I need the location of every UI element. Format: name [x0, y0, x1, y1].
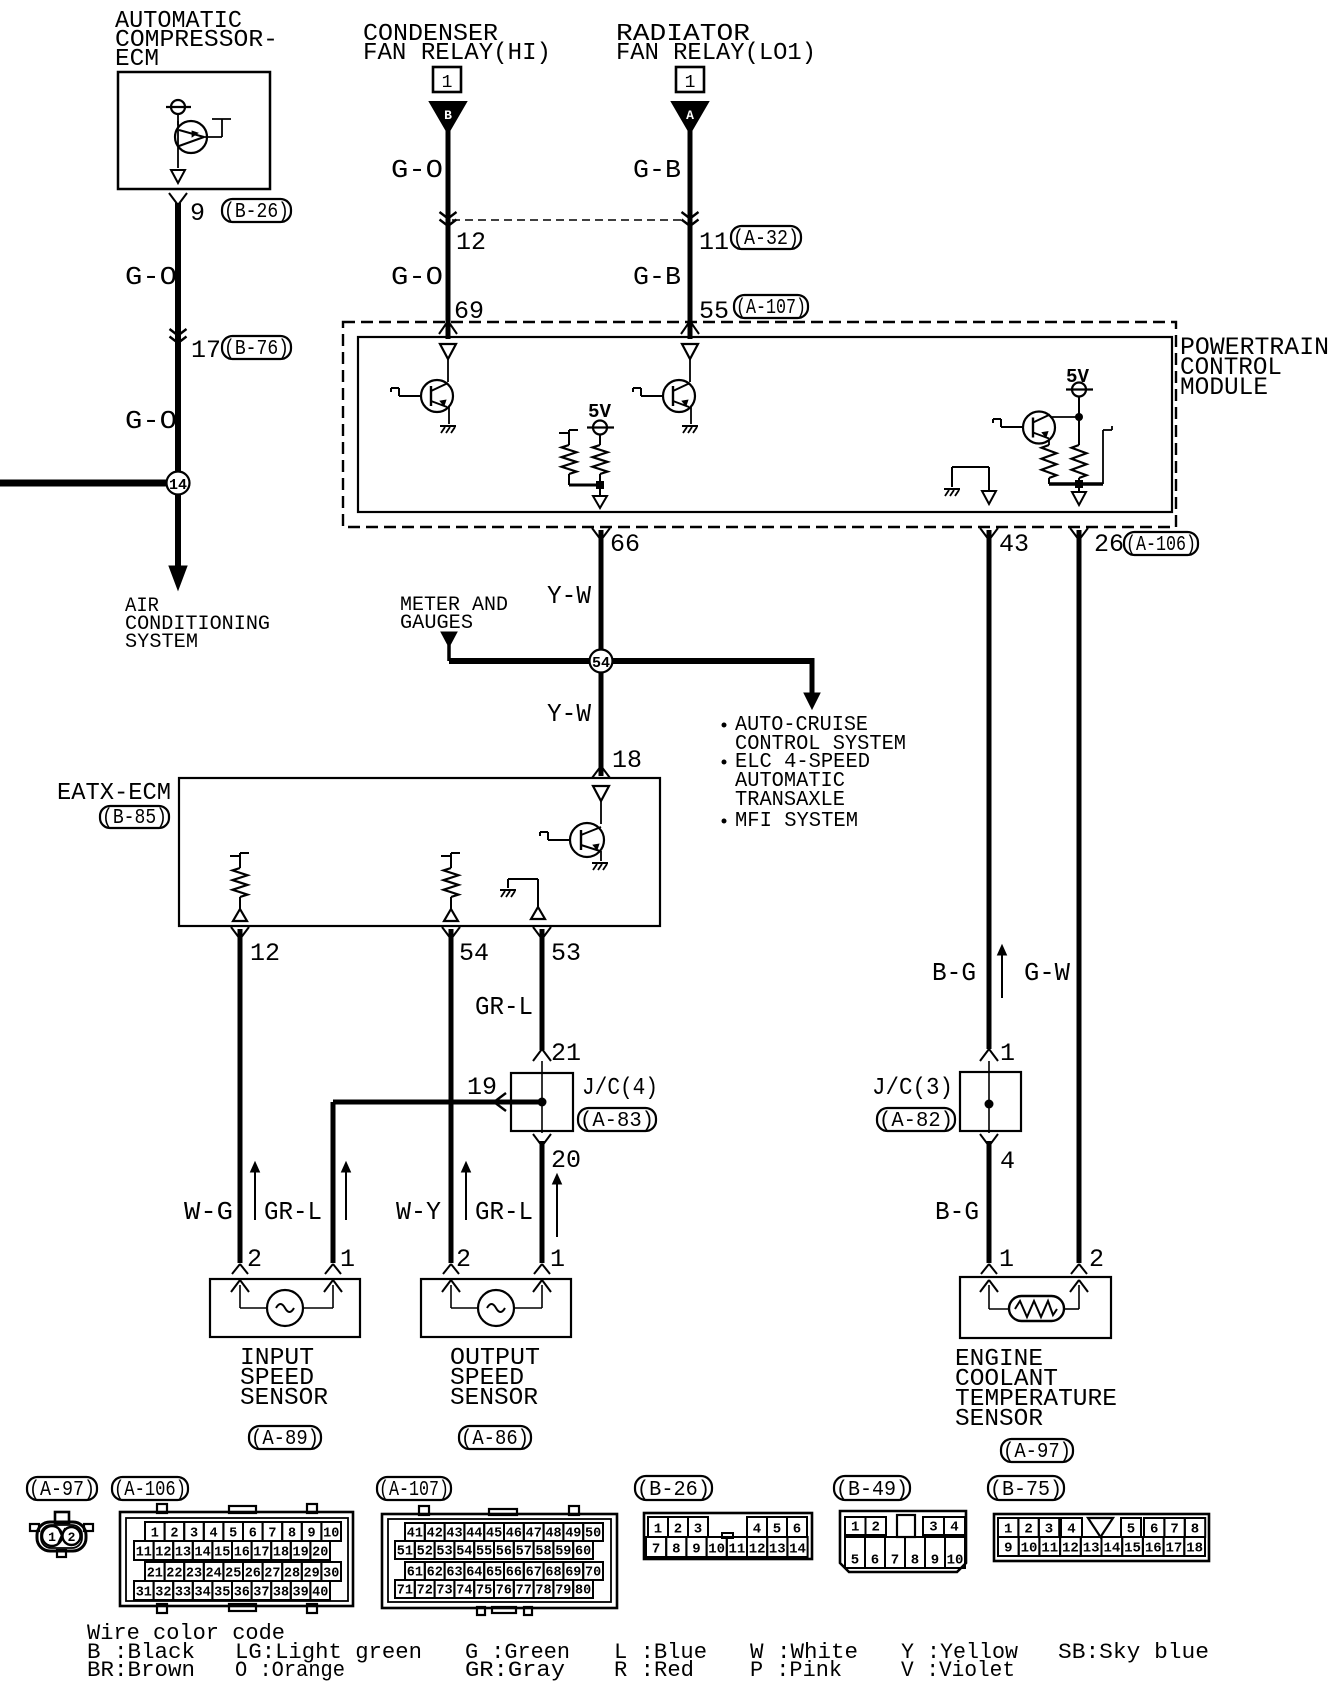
- svg-text:3: 3: [929, 1520, 937, 1536]
- svg-text:8: 8: [672, 1542, 680, 1558]
- svg-text:(B-26): (B-26): [224, 201, 289, 224]
- svg-text:(A-86): (A-86): [461, 1428, 529, 1451]
- svg-text:15: 15: [1124, 1541, 1141, 1557]
- svg-text:1: 1: [1004, 1522, 1012, 1538]
- svg-text:8: 8: [911, 1553, 919, 1569]
- svg-text:2: 2: [1089, 1245, 1104, 1274]
- svg-text:5: 5: [1127, 1522, 1135, 1538]
- svg-text:10: 10: [947, 1553, 964, 1569]
- svg-text:14: 14: [194, 1546, 210, 1561]
- svg-text:65: 65: [486, 1566, 502, 1581]
- svg-text:54: 54: [456, 1545, 472, 1560]
- svg-text:2: 2: [68, 1530, 76, 1545]
- svg-text:8: 8: [1191, 1522, 1199, 1538]
- svg-text:68: 68: [545, 1566, 561, 1581]
- svg-text:(A-97): (A-97): [1003, 1441, 1071, 1464]
- svg-text:G-W: G-W: [1024, 958, 1070, 988]
- svg-text:GR:Gray: GR:Gray: [465, 1658, 565, 1683]
- svg-text:A: A: [686, 108, 694, 123]
- svg-text:G-O: G-O: [125, 262, 177, 292]
- svg-text:42: 42: [427, 1527, 443, 1542]
- svg-text:11: 11: [699, 228, 729, 257]
- svg-text:1: 1: [550, 1245, 565, 1274]
- svg-text:13: 13: [769, 1542, 786, 1558]
- svg-text:7: 7: [268, 1527, 276, 1542]
- svg-text:23: 23: [186, 1567, 202, 1582]
- svg-text:Y-W: Y-W: [547, 699, 591, 729]
- svg-text:12: 12: [250, 939, 280, 968]
- svg-text:7: 7: [891, 1553, 899, 1569]
- svg-text:53: 53: [551, 939, 581, 968]
- svg-text:49: 49: [565, 1527, 581, 1542]
- svg-text:Y-W: Y-W: [547, 581, 591, 611]
- svg-text:43: 43: [446, 1527, 462, 1542]
- svg-text:6: 6: [793, 1522, 801, 1538]
- svg-text:12: 12: [1062, 1541, 1079, 1557]
- svg-text:44: 44: [466, 1527, 482, 1542]
- svg-text:73: 73: [436, 1584, 452, 1599]
- svg-text:37: 37: [253, 1586, 269, 1601]
- svg-text:26: 26: [1094, 530, 1124, 559]
- svg-text:J/C(3): J/C(3): [872, 1075, 953, 1102]
- svg-text:78: 78: [535, 1584, 551, 1599]
- svg-text:10: 10: [1021, 1541, 1038, 1557]
- svg-text:8: 8: [288, 1527, 296, 1542]
- svg-text:58: 58: [535, 1545, 551, 1560]
- svg-text:63: 63: [446, 1566, 462, 1581]
- svg-text:9: 9: [931, 1553, 939, 1569]
- svg-text:12: 12: [749, 1542, 766, 1558]
- svg-text:46: 46: [506, 1527, 522, 1542]
- svg-text:25: 25: [225, 1567, 241, 1582]
- svg-text:1: 1: [685, 73, 696, 93]
- svg-text:31: 31: [136, 1586, 152, 1601]
- svg-text:6: 6: [1150, 1522, 1158, 1538]
- svg-text:5: 5: [851, 1553, 859, 1569]
- svg-text:9: 9: [308, 1527, 316, 1542]
- svg-text:P :Pink: P :Pink: [750, 1658, 842, 1683]
- svg-text:W-G: W-G: [184, 1197, 233, 1227]
- svg-text:2: 2: [674, 1522, 682, 1538]
- svg-text:3: 3: [694, 1522, 702, 1538]
- svg-text:MFI SYSTEM: MFI SYSTEM: [735, 810, 858, 833]
- svg-text:64: 64: [466, 1566, 482, 1581]
- svg-text:TRANSAXLE: TRANSAXLE: [735, 789, 845, 812]
- svg-text:V :Violet: V :Violet: [901, 1658, 1015, 1683]
- svg-text:11: 11: [1041, 1541, 1058, 1557]
- svg-text:30: 30: [323, 1567, 339, 1582]
- svg-text:(A-107): (A-107): [736, 297, 806, 320]
- svg-text:ECM: ECM: [115, 46, 159, 73]
- svg-text:74: 74: [456, 1584, 472, 1599]
- svg-text:51: 51: [397, 1545, 413, 1560]
- svg-text:16: 16: [234, 1546, 250, 1561]
- svg-text:54: 54: [592, 655, 610, 672]
- svg-text:4: 4: [950, 1520, 958, 1536]
- svg-text:SB:Sky blue: SB:Sky blue: [1058, 1640, 1209, 1665]
- svg-text:G-O: G-O: [391, 155, 443, 185]
- svg-text:(B-26): (B-26): [637, 1479, 710, 1502]
- svg-text:50: 50: [585, 1527, 601, 1542]
- svg-text:17: 17: [191, 336, 221, 365]
- svg-text:10: 10: [708, 1542, 725, 1558]
- svg-text:21: 21: [551, 1039, 581, 1068]
- svg-text:16: 16: [1145, 1541, 1162, 1557]
- svg-text:34: 34: [194, 1586, 210, 1601]
- svg-text:70: 70: [585, 1566, 601, 1581]
- svg-text:FAN RELAY(HI): FAN RELAY(HI): [363, 40, 551, 67]
- svg-text:1: 1: [851, 1520, 859, 1536]
- svg-text:2: 2: [456, 1245, 471, 1274]
- svg-text:(A-83): (A-83): [580, 1110, 654, 1133]
- svg-text:14: 14: [1103, 1541, 1120, 1557]
- svg-text:(A-32): (A-32): [733, 228, 799, 251]
- svg-text:52: 52: [417, 1545, 433, 1560]
- svg-text:(B-85): (B-85): [102, 807, 167, 830]
- svg-text:5: 5: [229, 1527, 237, 1542]
- svg-text:FAN RELAY(LO1): FAN RELAY(LO1): [616, 40, 816, 67]
- svg-text:12: 12: [456, 228, 486, 257]
- svg-text:53: 53: [436, 1545, 452, 1560]
- svg-text:18: 18: [612, 746, 642, 775]
- svg-text:40: 40: [312, 1586, 328, 1601]
- svg-text:29: 29: [303, 1567, 319, 1582]
- svg-text:14: 14: [789, 1542, 806, 1558]
- svg-text:57: 57: [516, 1545, 532, 1560]
- svg-text:1: 1: [654, 1522, 662, 1538]
- svg-text:45: 45: [486, 1527, 502, 1542]
- svg-text:5: 5: [773, 1522, 781, 1538]
- svg-text:67: 67: [526, 1566, 542, 1581]
- svg-text:(B-49): (B-49): [836, 1479, 908, 1502]
- svg-text:SENSOR: SENSOR: [955, 1406, 1043, 1433]
- svg-text:18: 18: [273, 1546, 289, 1561]
- svg-text:7: 7: [652, 1542, 660, 1558]
- svg-text:(B-75): (B-75): [990, 1479, 1062, 1502]
- svg-text:2: 2: [872, 1520, 880, 1536]
- svg-text:G-O: G-O: [125, 406, 177, 436]
- svg-text:6: 6: [249, 1527, 257, 1542]
- svg-text:32: 32: [155, 1586, 171, 1601]
- svg-text:9: 9: [1004, 1541, 1012, 1557]
- svg-text:13: 13: [1083, 1541, 1100, 1557]
- svg-text:71: 71: [397, 1584, 413, 1599]
- svg-text:4: 4: [753, 1522, 761, 1538]
- svg-text:26: 26: [245, 1567, 261, 1582]
- svg-text:1: 1: [1000, 1039, 1015, 1068]
- svg-text:14: 14: [169, 477, 187, 494]
- svg-text:1: 1: [151, 1527, 159, 1542]
- svg-text:13: 13: [175, 1546, 191, 1561]
- svg-text:SYSTEM: SYSTEM: [125, 631, 198, 654]
- svg-text:GAUGES: GAUGES: [400, 612, 473, 635]
- svg-text:43: 43: [999, 530, 1029, 559]
- svg-text:2: 2: [170, 1527, 178, 1542]
- svg-text:GR-L: GR-L: [475, 1197, 533, 1227]
- svg-text:21: 21: [147, 1567, 163, 1582]
- svg-text:(A-107): (A-107): [379, 1479, 449, 1502]
- svg-text:9: 9: [190, 199, 205, 228]
- svg-text:(A-97): (A-97): [29, 1479, 95, 1502]
- svg-text:61: 61: [407, 1566, 423, 1581]
- svg-text:22: 22: [166, 1567, 182, 1582]
- svg-text:66: 66: [506, 1566, 522, 1581]
- svg-text:77: 77: [516, 1584, 532, 1599]
- svg-text:35: 35: [214, 1586, 230, 1601]
- svg-text:18: 18: [1186, 1541, 1203, 1557]
- svg-text:20: 20: [551, 1146, 581, 1175]
- svg-text:39: 39: [292, 1586, 308, 1601]
- svg-text:O :Orange: O :Orange: [235, 1658, 345, 1683]
- svg-text:15: 15: [214, 1546, 230, 1561]
- svg-text:(A-106): (A-106): [114, 1479, 186, 1502]
- svg-text:J/C(4): J/C(4): [582, 1075, 658, 1102]
- svg-text:SENSOR: SENSOR: [450, 1385, 538, 1412]
- svg-text:2: 2: [247, 1245, 262, 1274]
- svg-text:BR:Brown: BR:Brown: [87, 1658, 195, 1683]
- svg-text:B: B: [444, 108, 452, 123]
- svg-text:G-B: G-B: [633, 262, 681, 292]
- svg-text:12: 12: [155, 1546, 171, 1561]
- svg-text:4: 4: [1067, 1522, 1075, 1538]
- svg-text:56: 56: [496, 1545, 512, 1560]
- svg-text:38: 38: [273, 1586, 289, 1601]
- svg-text:11: 11: [728, 1542, 745, 1558]
- svg-text:4: 4: [1000, 1147, 1015, 1176]
- svg-text:(A-89): (A-89): [251, 1428, 319, 1451]
- svg-text:11: 11: [136, 1546, 152, 1561]
- svg-text:5V: 5V: [1066, 366, 1090, 388]
- svg-text:59: 59: [555, 1545, 571, 1560]
- svg-text:R :Red: R :Red: [614, 1658, 694, 1683]
- svg-text:SENSOR: SENSOR: [240, 1385, 328, 1412]
- svg-text:EATX-ECM: EATX-ECM: [57, 780, 171, 807]
- svg-text:27: 27: [264, 1567, 280, 1582]
- svg-text:4: 4: [210, 1527, 218, 1542]
- svg-text:19: 19: [467, 1073, 497, 1102]
- svg-text:1: 1: [999, 1245, 1014, 1274]
- svg-text:66: 66: [610, 530, 640, 559]
- svg-text:48: 48: [545, 1527, 561, 1542]
- svg-text:9: 9: [692, 1542, 700, 1558]
- svg-text:3: 3: [1045, 1522, 1053, 1538]
- svg-text:G-B: G-B: [633, 155, 681, 185]
- svg-text:55: 55: [476, 1545, 492, 1560]
- svg-text:10: 10: [323, 1527, 339, 1542]
- svg-text:62: 62: [427, 1566, 443, 1581]
- svg-text:47: 47: [526, 1527, 542, 1542]
- svg-text:1: 1: [442, 73, 453, 93]
- svg-text:79: 79: [555, 1584, 571, 1599]
- svg-text:69: 69: [565, 1566, 581, 1581]
- svg-text:GR-L: GR-L: [475, 992, 533, 1022]
- svg-text:41: 41: [407, 1527, 423, 1542]
- svg-text:(B-76): (B-76): [224, 338, 289, 361]
- svg-text:76: 76: [496, 1584, 512, 1599]
- svg-text:G-O: G-O: [391, 262, 443, 292]
- svg-text:1: 1: [340, 1245, 355, 1274]
- svg-text:17: 17: [1166, 1541, 1183, 1557]
- svg-text:B-G: B-G: [932, 958, 976, 988]
- svg-text:28: 28: [284, 1567, 300, 1582]
- svg-text:GR-L: GR-L: [264, 1197, 322, 1227]
- svg-text:3: 3: [190, 1527, 198, 1542]
- svg-text:(A-82): (A-82): [879, 1110, 953, 1133]
- svg-text:75: 75: [476, 1584, 492, 1599]
- svg-text:19: 19: [292, 1546, 308, 1561]
- svg-text:80: 80: [575, 1584, 591, 1599]
- svg-text:60: 60: [575, 1545, 591, 1560]
- svg-text:33: 33: [175, 1586, 191, 1601]
- svg-text:B-G: B-G: [935, 1197, 979, 1227]
- svg-text:36: 36: [234, 1586, 250, 1601]
- svg-text:2: 2: [1024, 1522, 1032, 1538]
- svg-text:7: 7: [1170, 1522, 1178, 1538]
- svg-text:W-Y: W-Y: [396, 1197, 441, 1227]
- svg-text:72: 72: [417, 1584, 433, 1599]
- svg-text:17: 17: [253, 1546, 269, 1561]
- svg-text:24: 24: [205, 1567, 221, 1582]
- svg-text:54: 54: [459, 939, 489, 968]
- svg-text:MODULE: MODULE: [1180, 373, 1268, 402]
- svg-text:6: 6: [871, 1553, 879, 1569]
- svg-text:20: 20: [312, 1546, 328, 1561]
- svg-text:(A-106): (A-106): [1126, 534, 1196, 557]
- svg-text:1: 1: [48, 1530, 56, 1545]
